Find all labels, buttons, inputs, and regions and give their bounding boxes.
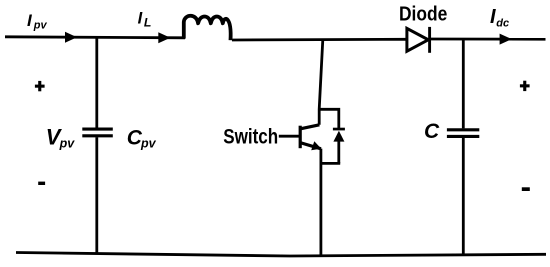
wire freewheel branch bottom corner — [321, 162, 340, 165]
arrowhead IL current direction — [158, 32, 170, 43]
wire to freewheel diode branch (upper corner) — [319, 109, 339, 129]
label minus (right, output polarity) — [522, 187, 530, 191]
svg-text:pv: pv — [33, 19, 48, 31]
transistor Q1 base/gate lead wire — [279, 135, 301, 138]
label I_dc — [490, 6, 509, 29]
svg-text:pv: pv — [140, 137, 157, 151]
svg-text:I: I — [490, 6, 496, 28]
label I_L — [138, 9, 152, 29]
diode D1 (boost diode) — [407, 27, 430, 53]
transistor Q1 (switch) — [300, 125, 321, 150]
svg-text:I: I — [138, 9, 143, 27]
svg-text:C: C — [424, 120, 440, 143]
freewheel diode D2 (anti-parallel) — [333, 128, 345, 164]
capacitor Cpv — [82, 129, 113, 253]
svg-text:dc: dc — [496, 17, 509, 29]
svg-text:L: L — [144, 16, 152, 30]
label C_pv value of capacitor — [127, 126, 157, 150]
node junction B (top of C branch) — [462, 39, 465, 128]
wire top-left segment — [5, 37, 185, 38]
wire top-middle segment — [232, 38, 408, 42]
inductor L — [184, 16, 231, 40]
svg-text:pv: pv — [59, 137, 76, 151]
label minus (left, Vpv polarity) — [38, 182, 45, 185]
label plus (right, output polarity) — [520, 81, 530, 91]
node junction A (top of Cpv branch) — [95, 37, 98, 128]
wire switch branch vertical (top) — [319, 40, 323, 125]
label plus (left, Vpv polarity) — [35, 81, 45, 91]
label V_pv — [46, 124, 75, 150]
arrowhead Ipv current direction — [65, 32, 77, 43]
svg-text:Switch: Switch — [223, 124, 278, 148]
capacitor C — [447, 130, 479, 255]
wire switch branch vertical (bottom) — [319, 149, 322, 256]
arrowhead Idc current direction — [500, 34, 512, 45]
wire bottom rail — [16, 253, 546, 257]
label I_pv — [27, 11, 48, 32]
wire top-right segment — [430, 38, 546, 41]
svg-text:Diode: Diode — [399, 3, 447, 25]
